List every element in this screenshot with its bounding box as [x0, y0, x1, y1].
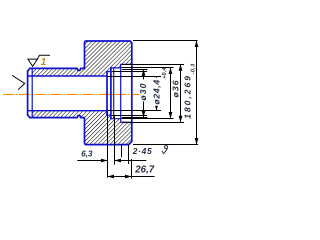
dim A line: [143, 69, 145, 117]
ext 6,3 left: [107, 112, 109, 178]
bore top: [28, 75, 107, 77]
hatch flange bottom: [85, 111, 132, 145]
dia40 circle edge: [120, 64, 122, 122]
leader 2x45 b: [128, 145, 130, 164]
svg-text:180,269: 180,269: [182, 74, 192, 119]
svg-text:ø24,4: ø24,4: [152, 79, 162, 104]
centerline: [3, 93, 140, 95]
step dia30 face: [106, 72, 108, 116]
svg-text:-0,3: -0,3: [191, 64, 197, 75]
tube outer top: [30, 68, 85, 70]
inner circle edge A: [113, 68, 115, 119]
dim B line: [156, 76, 158, 111]
ext dia36 top: [122, 67, 174, 69]
ext dia40 top: [122, 64, 184, 66]
dia40 opening lines: [121, 64, 132, 122]
ext dia30 bottom: [112, 115, 147, 117]
ext 26,7 right: [131, 159, 133, 179]
hatch tube bottom wall: [32, 111, 84, 117]
part outline: [28, 41, 132, 145]
white masks over dim lines behind texts: [140, 80, 147, 102]
rotated dim texts: [138, 64, 197, 119]
hatch flange top: [85, 41, 132, 76]
left face: [27, 71, 29, 115]
svg-text:ø36: ø36: [171, 79, 181, 97]
6,3 arrows: [101, 159, 108, 163]
dim B arrows: [155, 76, 159, 83]
dim 6,3 line: [77, 160, 146, 162]
dim D line: [180, 64, 182, 122]
svg-text:6,3: 6,3: [81, 150, 93, 159]
dia36 lines: [111, 68, 121, 119]
dim 26,7 line: [108, 176, 155, 178]
arrows: [101, 41, 198, 179]
ext dia30 top: [112, 71, 147, 73]
tube outer bottom: [30, 116, 85, 118]
chamfer edge line: [31, 68, 33, 117]
26,7 arrows: [108, 175, 115, 179]
dia30 lines: [107, 72, 111, 116]
svg-text:1: 1: [41, 57, 47, 68]
ext dia40 bottom: [122, 122, 184, 124]
black thin dimension/extension lines: [77, 41, 198, 179]
leader 2x45 a: [121, 145, 123, 157]
bore bottom: [28, 110, 107, 112]
dim C arrows: [169, 68, 173, 75]
svg-text:2·45: 2·45: [132, 146, 153, 156]
degree mark: [165, 146, 168, 149]
roughness symbol S1: [28, 55, 50, 66]
ext bore top: [108, 76, 162, 78]
dim C line: [170, 68, 172, 119]
left chamfer top: [28, 68, 30, 71]
roughness symbol S2: [12, 75, 25, 89]
left chamfer bottom: [28, 115, 30, 118]
svg-text:26,7: 26,7: [134, 165, 154, 176]
ext flange bottom: [133, 144, 198, 146]
hatch tube top wall: [32, 69, 84, 76]
dim D arrows: [179, 64, 183, 71]
ext bore bottom: [108, 110, 162, 112]
ext flange top: [133, 40, 198, 42]
dim A arrows: [142, 69, 146, 76]
dim E line: [196, 41, 198, 145]
ext dia36 bottom: [122, 118, 174, 120]
ext 6,3 right: [114, 116, 116, 165]
flange left face with fillets and rounds: [83, 41, 132, 68]
step dia36 face: [110, 68, 112, 119]
flange right face: [131, 43, 133, 141]
ext tube od top: [122, 69, 148, 71]
ext tube od bottom: [122, 117, 148, 119]
svg-text:+0,4: +0,4: [162, 67, 168, 78]
dim E arrows: [195, 41, 199, 48]
svg-text:ø30: ø30: [138, 82, 148, 100]
